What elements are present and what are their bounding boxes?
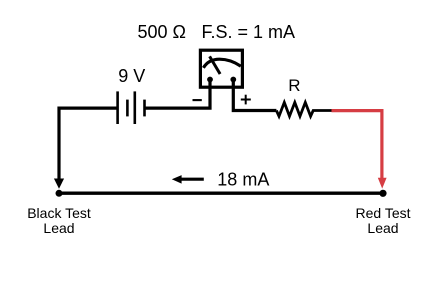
- svg-text:9 V: 9 V: [118, 66, 145, 86]
- svg-text:Red Test: Red Test: [356, 205, 411, 221]
- svg-text:F.S. = 1 mA: F.S. = 1 mA: [202, 22, 296, 42]
- svg-text:R: R: [288, 76, 300, 95]
- svg-text:500 Ω: 500 Ω: [138, 22, 187, 42]
- svg-text:Lead: Lead: [43, 220, 74, 236]
- svg-text:18 mA: 18 mA: [217, 170, 269, 190]
- svg-text:Black Test: Black Test: [27, 205, 91, 221]
- svg-text:Lead: Lead: [367, 220, 398, 236]
